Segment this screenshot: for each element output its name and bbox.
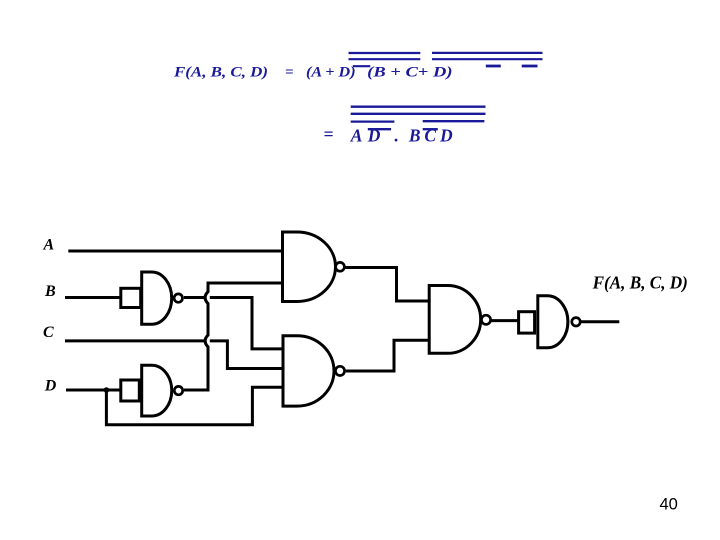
row 2 macron over C [423, 128, 438, 130]
inverter U1 (B) input box [121, 288, 141, 307]
equation row 1 text: F(A, B, C, D) = [173, 65, 294, 81]
double overline over (A + D) [349, 53, 421, 59]
wire C to U4 middle input [65, 341, 284, 369]
wire U3 output to U5 top input [345, 268, 430, 302]
wire U6 output [581, 320, 619, 323]
short macron dash 1 [486, 65, 501, 68]
svg-text:=: = [324, 124, 334, 144]
wire U5 output to U6 [491, 319, 519, 322]
svg-text:F(A, B, C, D): F(A, B, C, D) [592, 272, 688, 293]
NAND gate U4 bubble [335, 366, 344, 375]
svg-text:40: 40 [660, 496, 678, 514]
svg-text:.: . [395, 125, 399, 145]
NAND gate U5 bubble [481, 315, 490, 324]
inverter U6 bubble [572, 318, 580, 326]
wire U1 output (B bar) to U4 top input [184, 298, 284, 349]
svg-text:(A + D): (A + D) [306, 65, 356, 81]
row 2 overline over A D [351, 120, 395, 122]
svg-text:D: D [44, 377, 57, 394]
inverter U6 body [538, 296, 568, 348]
row 2 long overline 1 [351, 106, 486, 108]
svg-text:A: A [43, 236, 55, 253]
equation row 2: = A D . B C D [324, 124, 454, 146]
NAND gate U3 bubble [336, 262, 345, 271]
equation row 1 term (B + C+ D) [367, 65, 452, 81]
NAND gate U5 body [429, 286, 481, 354]
short macron dash 2 [522, 65, 538, 68]
double overline over (B + C+ D) [432, 53, 543, 59]
wire B input to U1 [65, 296, 121, 299]
junction dot on D wire [104, 387, 110, 393]
row 2 overline over B C D [423, 120, 485, 122]
svg-text:C: C [43, 324, 54, 341]
svg-text:(B + C+ D): (B + C+ D) [367, 65, 452, 81]
wire A input to U3 [68, 250, 282, 253]
inverter U2 (D) input box [121, 380, 140, 401]
svg-text:B: B [408, 125, 421, 145]
inverter U1 (B) bubble [174, 294, 182, 302]
wire D input to U2 [66, 389, 121, 392]
svg-text:=: = [285, 65, 294, 81]
equation row 1 term (A + D) [306, 65, 356, 81]
inverter U2 (D) body [142, 365, 172, 416]
row 2 long overline 2 [351, 113, 486, 115]
overline fragment after (A + D) [353, 65, 371, 67]
svg-text:A: A [350, 125, 363, 145]
NAND gate U4 body [283, 336, 334, 406]
wire U2 output (D bar) to U3 bottom input, with crossover hops [184, 283, 283, 390]
row 2 macron over D [368, 128, 391, 130]
wire D branch bottom loop to U4 bottom input [106, 387, 283, 425]
svg-text:F(A, B, C, D): F(A, B, C, D) [173, 65, 268, 81]
svg-text:B: B [44, 283, 56, 300]
wire U4 output to U5 bottom input [346, 340, 429, 371]
svg-text:D: D [439, 125, 453, 145]
inverter U6 input box [519, 312, 535, 333]
inverter U2 (D) bubble [174, 386, 182, 394]
inverter U1 (B) body [142, 272, 172, 324]
NAND gate U3 body [283, 232, 336, 302]
